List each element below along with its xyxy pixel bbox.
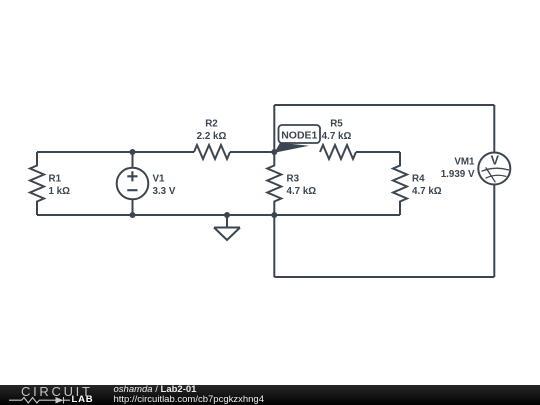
resistor R2 (194, 119, 230, 160)
footer user / title line and url (114, 385, 265, 405)
resistor R1 (30, 152, 70, 215)
svg-text:4.7 kΩ: 4.7 kΩ (322, 131, 352, 142)
svg-text:R3: R3 (287, 174, 300, 185)
ground (214, 215, 240, 240)
svg-text:NODE1: NODE1 (281, 130, 317, 142)
CircuitLab logo symbol (resistor + diode) (9, 396, 71, 405)
svg-text:4.7 kΩ: 4.7 kΩ (287, 186, 317, 197)
svg-text:V1: V1 (153, 174, 166, 185)
svg-text:R4: R4 (412, 174, 425, 185)
CircuitLab logo word LAB (72, 395, 94, 404)
junction at ground (224, 212, 230, 218)
voltage source V1 (117, 152, 176, 215)
junction at NODE1 (271, 149, 277, 155)
wire top rail left (R1 top to R2 left) (37, 151, 194, 153)
svg-text:1 kΩ: 1 kΩ (49, 186, 71, 197)
wire box top (to voltmeter branch) (274, 104, 494, 106)
svg-text:4.7 kΩ: 4.7 kΩ (412, 186, 442, 197)
CircuitLab logo word CIRCUIT (21, 386, 93, 397)
svg-text:R5: R5 (330, 119, 343, 130)
svg-text:2.2 kΩ: 2.2 kΩ (197, 131, 227, 142)
voltmeter VM1 (441, 153, 511, 185)
svg-text:R2: R2 (205, 119, 218, 130)
wire voltmeter upper lead (493, 105, 495, 153)
svg-text:VM1: VM1 (454, 157, 475, 168)
wire box bottom (274, 276, 494, 278)
wire inner bottom (bottom node to R4 bottom) (274, 214, 400, 216)
wire voltmeter lower lead down to box bottom (493, 185, 495, 278)
wire NODE1 up to box top (273, 105, 275, 152)
resistor R4 (393, 152, 442, 215)
svg-text:1.939 V: 1.939 V (441, 169, 475, 180)
footer bar (0, 385, 540, 405)
wire R5 right to R4 top (356, 151, 400, 153)
wire top rail right (R2 right to NODE1) (230, 151, 274, 153)
svg-text:3.3 V: 3.3 V (153, 186, 176, 197)
junction at V1 bottom (130, 212, 136, 218)
resistor R5 (320, 119, 356, 160)
node NODE1 label callout (274, 125, 320, 153)
junction at V1 top (130, 149, 136, 155)
wire bottom rail (R1 bottom to bottom node) (37, 214, 274, 216)
wire box left up to bottom node (273, 215, 275, 277)
resistor R3 (267, 152, 316, 215)
svg-text:V: V (491, 154, 500, 168)
svg-text:R1: R1 (49, 174, 62, 185)
junction at bottom node (271, 212, 277, 218)
